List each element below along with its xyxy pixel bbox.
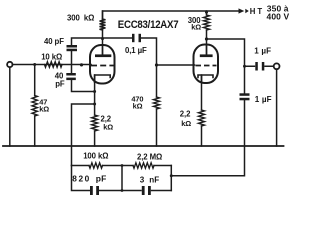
wire output cap branch: [245, 65, 274, 67]
output terminal: [274, 63, 280, 69]
wire output terminal riser: [276, 69, 278, 146]
svg-text:400 V: 400 V: [267, 12, 290, 22]
wire 300k2 drop: [206, 11, 208, 55]
svg-text:nF: nF: [149, 175, 159, 184]
svg-text:kΩ: kΩ: [191, 23, 201, 32]
resistor 2,2M (feedback): [133, 163, 154, 168]
wire input grid row: [12, 64, 91, 66]
svg-text:kΩ: kΩ: [39, 105, 49, 114]
svg-text:H T: H T: [250, 7, 263, 16]
svg-text:1 µF: 1 µF: [255, 95, 272, 104]
capacitor 1uF output coupling: [255, 62, 257, 71]
resistor 10k (input series): [45, 62, 63, 68]
resistor 47k (input shunt): [32, 96, 37, 117]
input terminal: [7, 62, 12, 67]
tube V2 ECC83 triode b: [194, 45, 219, 84]
wire anode2 to output: [207, 39, 245, 93]
wire cathode1 column: [94, 75, 96, 146]
wire feedback box right vertical: [170, 166, 172, 191]
resistor 100k (feedback): [89, 163, 103, 168]
svg-text:kΩ: kΩ: [181, 119, 191, 128]
wire anode1 to 0,1uF branch: [72, 38, 157, 97]
svg-text:2,2: 2,2: [180, 110, 191, 119]
HT arrow: [239, 8, 245, 13]
wire ground rail: [3, 145, 284, 147]
node anode2 / rail junction: [33, 11, 246, 192]
wire feedback box top: [72, 165, 172, 167]
svg-text:pF: pF: [55, 79, 65, 88]
svg-text:pF: pF: [96, 173, 107, 183]
tube V1 ECC83 triode a: [90, 45, 117, 84]
capacitor 0,1uF coupling: [132, 34, 135, 42]
wire 1uF2 to feedback box: [171, 101, 244, 176]
svg-text:1 µF: 1 µF: [254, 46, 271, 55]
resistor 300k (plate load V2): [204, 15, 210, 30]
wire input terminal to ground: [9, 67, 11, 146]
svg-text:ECC83/12AX7: ECC83/12AX7: [118, 18, 179, 31]
resistor 2,2k (cathode V2): [199, 110, 205, 126]
wire anode1 lead: [102, 38, 104, 55]
svg-text:kΩ: kΩ: [133, 102, 143, 111]
wire feedback box bottom: [72, 166, 172, 191]
capacitor 40pF bottom (grid-cathode): [66, 73, 76, 76]
wire 470k drop: [156, 109, 158, 146]
capacitor 40pF top (anode-grid): [67, 45, 78, 48]
resistor 2,2k (cathode V1): [92, 115, 98, 131]
resistor 470k (grid leak V2): [154, 97, 160, 109]
wire 40pF bottom stems: [72, 51, 95, 92]
svg-text:100 kΩ: 100 kΩ: [83, 152, 108, 161]
wire cathode2 column: [201, 75, 203, 146]
svg-text:kΩ: kΩ: [103, 122, 113, 131]
capacitor 1uF feedback dc block: [240, 93, 250, 96]
wire feedback riser and cathode tap: [72, 104, 95, 166]
svg-text:0,1 µF: 0,1 µF: [125, 46, 147, 55]
svg-text:40 pF: 40 pF: [44, 37, 64, 46]
svg-text:300 kΩ: 300 kΩ: [67, 14, 94, 23]
svg-text:3: 3: [140, 175, 145, 184]
wire feedback box middle vertical: [121, 166, 123, 191]
capacitor 820pF feedback: [90, 186, 93, 195]
capacitor 3nF feedback: [142, 186, 145, 195]
wire HT top rail: [103, 11, 239, 38]
svg-text:820: 820: [72, 173, 91, 183]
resistor 300k (plate load V1): [100, 19, 106, 30]
wire 47k riser: [34, 65, 36, 147]
svg-text:10 kΩ: 10 kΩ: [41, 52, 62, 61]
svg-text:2,2 MΩ: 2,2 MΩ: [137, 152, 162, 161]
wire grid2 row: [157, 64, 195, 66]
